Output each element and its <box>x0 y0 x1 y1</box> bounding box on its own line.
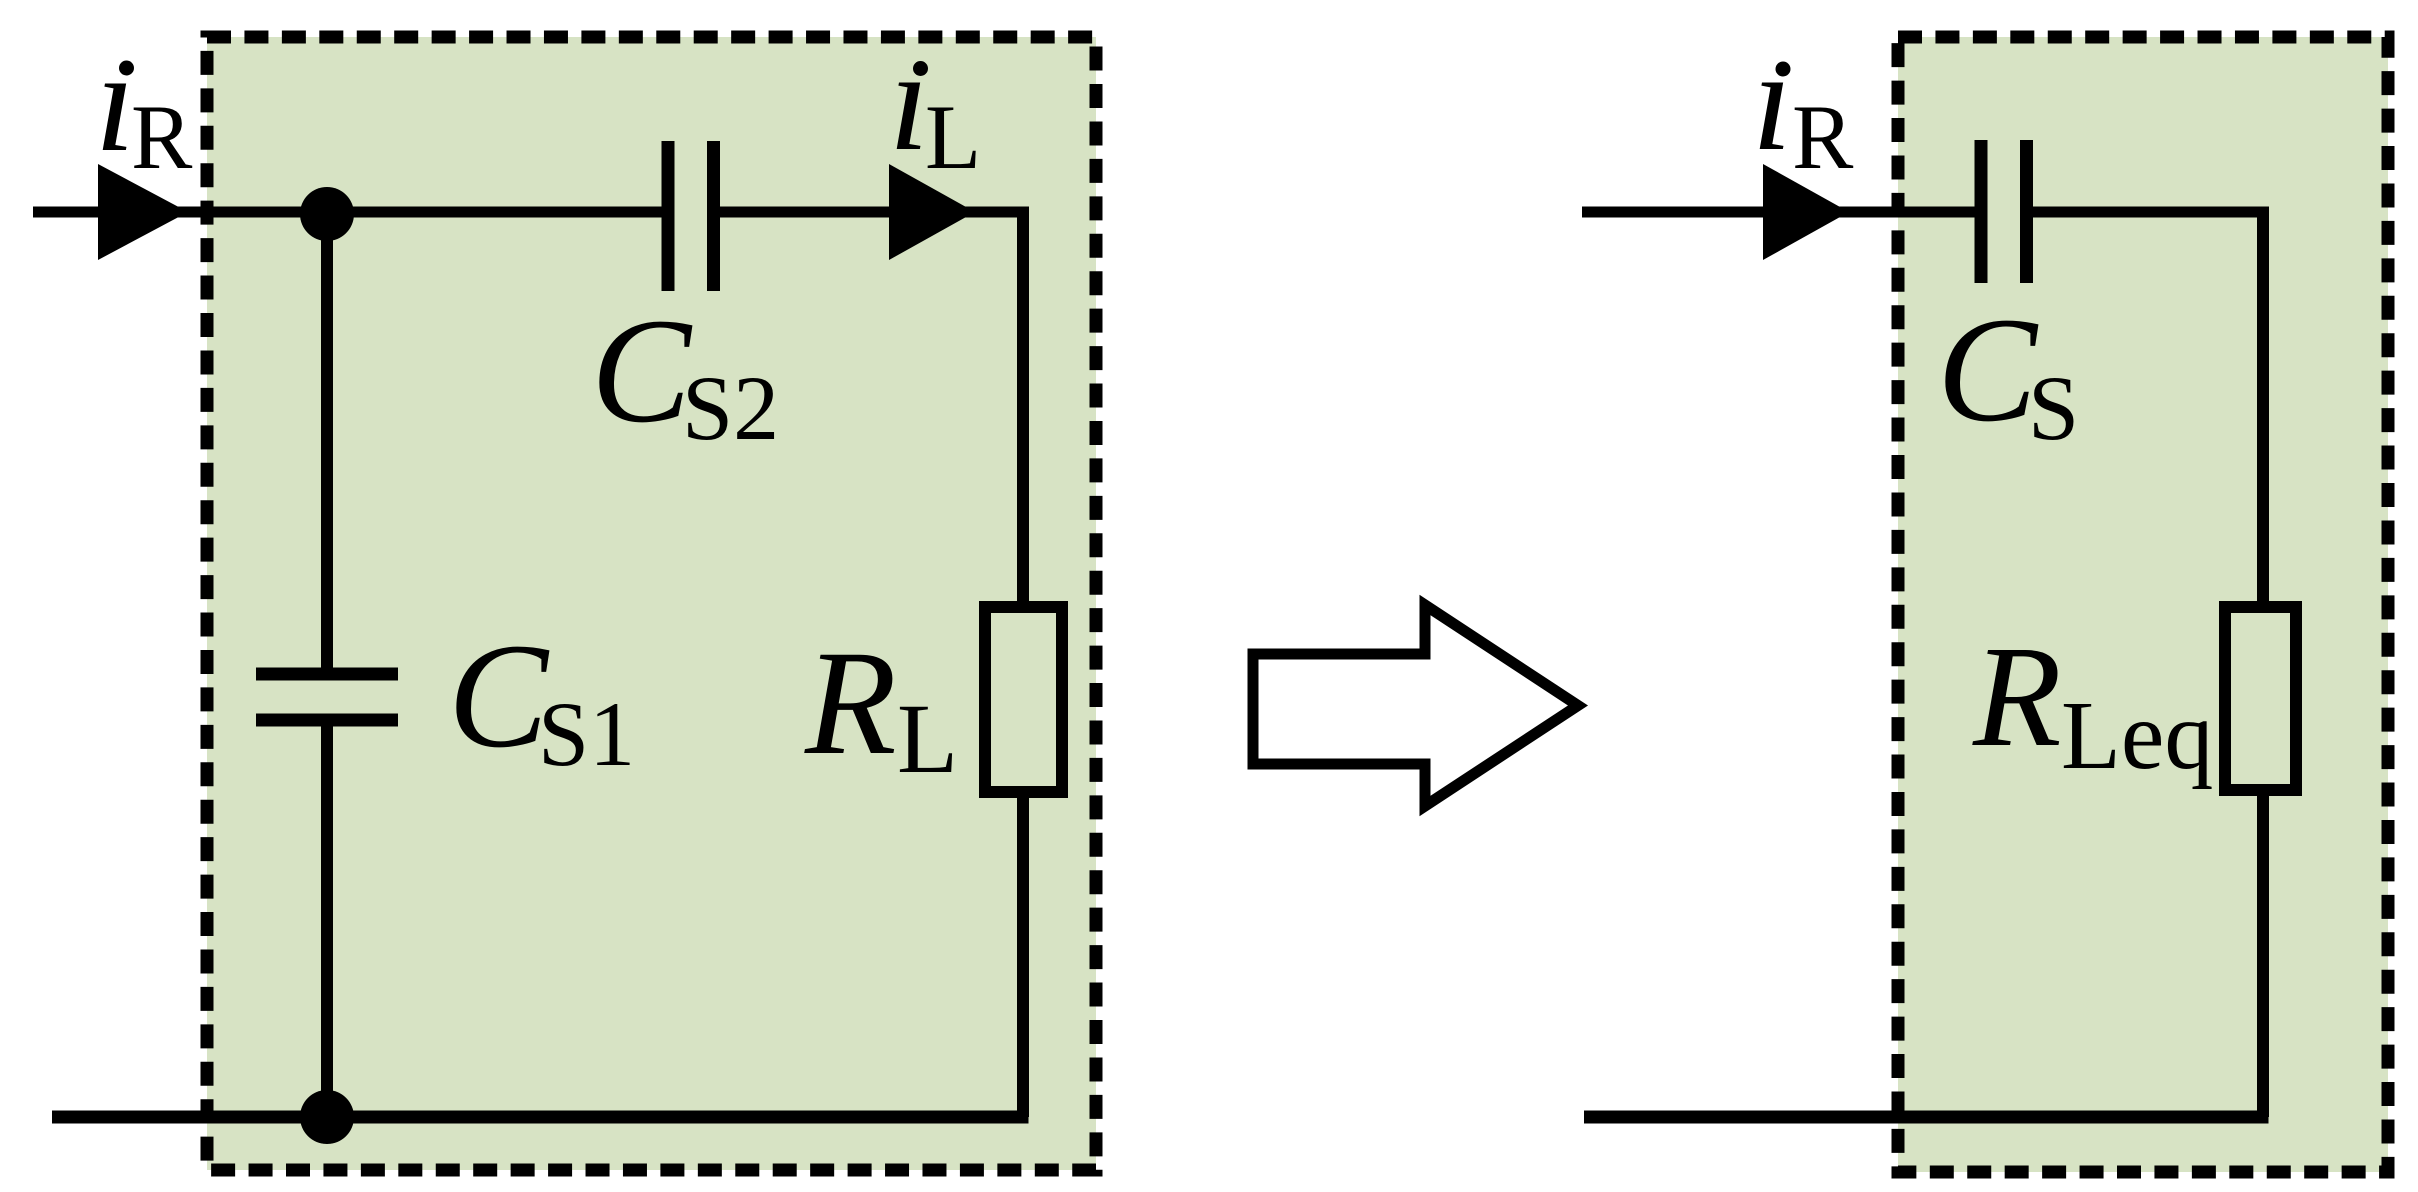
wire: C_S2 to top-right corner <box>720 207 1029 218</box>
svg-text:ı: ı <box>95 22 135 182</box>
wire: C_S1 bottom plate down to bottom rail <box>321 720 333 1117</box>
wire: bottom rail (right circuit) <box>1584 1111 2269 1124</box>
resistor R_Leq (rectangle body) <box>2225 607 2296 790</box>
big hollow arrow: equivalence transformation <box>1253 605 1578 806</box>
label C_S1 <box>448 613 635 785</box>
capacitor C_S2 (series, top) <box>668 141 714 291</box>
arrow: current direction i_R (right circuit) <box>1763 164 1849 260</box>
svg-text:C: C <box>448 613 550 779</box>
svg-text:R: R <box>1792 86 1854 188</box>
wire: below R_Leq down to bottom rail (right circuit) <box>2257 790 2269 1117</box>
wire: right vertical down to R_L <box>1017 207 1029 602</box>
label C_S <box>1937 287 2079 459</box>
wire: C_S to top-right corner (right circuit) <box>2033 207 2269 218</box>
svg-text:S2: S2 <box>682 357 779 459</box>
svg-text:ı: ı <box>889 21 929 181</box>
dashed box: equivalent load region <box>1898 37 2388 1172</box>
wire: node A down to C_S1 top plate <box>321 212 333 668</box>
label C_S2 <box>591 288 779 459</box>
svg-text:R: R <box>804 620 897 786</box>
wire: bottom rail (left circuit) <box>52 1111 1029 1124</box>
svg-text:R: R <box>131 86 193 188</box>
capacitor C_S1 (shunt, horizontal plates) <box>256 674 398 720</box>
arrow: current direction i_L <box>889 164 975 260</box>
svg-text:L: L <box>897 683 958 794</box>
svg-text:S1: S1 <box>538 683 635 785</box>
node B: bottom junction <box>300 1090 354 1144</box>
svg-text:S: S <box>2028 357 2079 459</box>
node A: junction of input, C_S1 and C_S2 <box>300 187 354 241</box>
wire: left input lead (top, left circuit) <box>33 207 663 218</box>
label R_L <box>804 620 958 794</box>
wire: right vertical down to R_Leq <box>2257 207 2269 602</box>
svg-text:L: L <box>925 86 981 188</box>
wire: below R_L down to bottom rail <box>1017 792 1029 1117</box>
arrow: current direction i_R (left circuit) <box>98 164 188 260</box>
svg-text:C: C <box>1937 287 2039 453</box>
label i_L <box>889 21 981 188</box>
label i_R (left circuit) <box>95 22 193 188</box>
capacitor C_S (series, right circuit) <box>1981 140 2027 283</box>
svg-text:C: C <box>591 288 693 454</box>
label R_Leq <box>1972 617 2213 790</box>
wire: input lead (right circuit) <box>1582 207 1976 218</box>
dashed box: two-capacitor matching network region <box>207 37 1096 1170</box>
svg-text:Leq: Leq <box>2061 682 2213 790</box>
label i_R (right circuit) <box>1752 21 1854 188</box>
svg-text:ı: ı <box>1752 21 1792 181</box>
svg-text:R: R <box>1972 617 2062 777</box>
resistor R_L (rectangle body) <box>985 607 1062 792</box>
